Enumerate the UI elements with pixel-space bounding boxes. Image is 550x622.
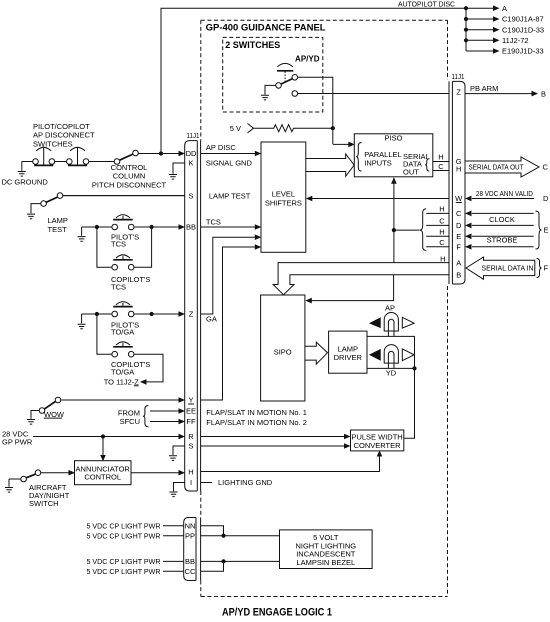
arrow to E190J1D-33 — [493, 48, 500, 54]
wire light pwr CC — [163, 570, 184, 572]
svg-text:AP/YD: AP/YD — [295, 54, 320, 63]
svg-text:OUT: OUT — [403, 167, 419, 176]
wire strobe line 2 — [472, 246, 534, 248]
svg-text:SIGNAL GND: SIGNAL GND — [206, 158, 253, 167]
arrow into pin E — [465, 234, 472, 240]
arrow into pin F — [465, 244, 472, 250]
svg-text:LAMPSIN BEZEL: LAMPSIN BEZEL — [296, 558, 355, 567]
switch copilot's TCS — [112, 264, 118, 270]
arrow into pin Y — [179, 397, 186, 403]
svg-text:B: B — [541, 89, 546, 98]
svg-text:PILOT/COPILOT: PILOT/COPILOT — [33, 122, 90, 131]
svg-text:LAMP TEST: LAMP TEST — [209, 191, 251, 200]
svg-text:AP DISC: AP DISC — [206, 143, 236, 152]
arrow WOW input — [255, 244, 261, 250]
svg-text:DC GROUND: DC GROUND — [2, 178, 49, 187]
svg-text:H: H — [456, 165, 461, 174]
svg-text:C: C — [439, 238, 445, 247]
svg-text:INPUTS: INPUTS — [364, 158, 392, 167]
svg-text:Z: Z — [456, 88, 461, 97]
svg-text:YD: YD — [386, 369, 397, 378]
arrow into pin EE — [179, 408, 186, 414]
wire serial data B to SIPO right — [311, 275, 394, 301]
arrow into pin C — [465, 211, 472, 217]
block annunciator control — [75, 461, 132, 485]
switch copilot's TO/GA — [112, 351, 118, 357]
node TO/GA right — [150, 312, 154, 316]
arrow into annunciator control top — [100, 455, 106, 461]
ground pin K — [169, 163, 185, 179]
node PP junction — [221, 534, 225, 538]
arrow into pin D — [465, 223, 472, 229]
wire clock line 1 — [472, 212, 534, 214]
hollow arrow SIPO to lamp driver — [305, 342, 328, 364]
block SIPO — [261, 295, 305, 401]
wire R to pulse width converter — [201, 436, 346, 438]
brace clock group — [420, 209, 426, 251]
svg-text:5 V: 5 V — [230, 124, 241, 133]
svg-text:C: C — [439, 216, 445, 225]
brace FROM SFCU — [143, 406, 149, 427]
svg-text:C: C — [438, 162, 444, 171]
block LAMP DRIVER — [329, 331, 367, 373]
svg-text:AP DISCONNECT: AP DISCONNECT — [33, 131, 95, 140]
svg-text:C: C — [543, 163, 549, 172]
svg-text:SWITCH: SWITCH — [29, 499, 59, 508]
wire CC loop to BB — [201, 561, 224, 571]
arrow into pin FF — [179, 419, 186, 425]
svg-text:AP: AP — [385, 303, 395, 312]
svg-text:D: D — [456, 221, 462, 230]
arrow into pin R — [179, 434, 186, 440]
ground AP/YD — [261, 85, 276, 100]
node clock junction — [392, 228, 396, 232]
switch pilot's TO/GA — [112, 311, 118, 317]
svg-text:2 SWITCHES: 2 SWITCHES — [225, 40, 280, 50]
arrow into PISO bottom — [391, 177, 397, 184]
svg-text:PITCH DISCONNECT: PITCH DISCONNECT — [92, 181, 167, 190]
svg-text:SFCU: SFCU — [120, 417, 140, 426]
svg-text:K: K — [188, 159, 193, 168]
wire serial data B bent arrow to SIPO — [284, 275, 450, 295]
svg-text:NN: NN — [185, 522, 196, 531]
svg-text:EE: EE — [186, 407, 196, 416]
svg-text:TCS: TCS — [111, 282, 126, 291]
switch LAMP TEST — [63, 195, 185, 197]
svg-text:PISO: PISO — [385, 134, 403, 143]
wire 28 VDC ANN VALID external — [472, 198, 534, 200]
wire strobe line 1 — [472, 235, 534, 237]
switch AP/YD blade — [281, 79, 293, 85]
wire DC ground to switches — [22, 161, 114, 163]
hollow arrow SERIAL DATA IN — [466, 257, 535, 279]
node AP disc junction — [159, 151, 163, 155]
svg-text:CLOCK: CLOCK — [489, 215, 515, 224]
arrow into pin BB — [179, 224, 186, 230]
arrow to A — [493, 5, 500, 11]
arrow PWC input 1 — [344, 434, 351, 440]
connector 11J1 left — [185, 141, 198, 491]
wire PISO C out — [433, 170, 449, 172]
hollow arrow SERIAL DATA OUT — [465, 157, 539, 177]
svg-text:E190J1D-33: E190J1D-33 — [502, 47, 544, 56]
svg-text:5 VDC CP LIGHT PWR: 5 VDC CP LIGHT PWR — [87, 531, 162, 540]
wire copilot TCS branch — [97, 227, 152, 267]
svg-text:H: H — [439, 204, 444, 213]
arrow into PISO left — [348, 142, 355, 148]
svg-text:S: S — [188, 442, 193, 451]
node TCS right — [150, 225, 154, 229]
svg-text:BB: BB — [185, 557, 195, 566]
wire PB ARM — [465, 93, 533, 95]
connector lower — [184, 518, 196, 581]
arrow into pin Z — [179, 311, 186, 317]
svg-text:SERIAL DATA IN: SERIAL DATA IN — [482, 264, 534, 273]
brace parallel inputs — [356, 143, 361, 172]
block PULSE WIDTH CONVERTER — [351, 430, 404, 451]
svg-text:STROBE: STROBE — [487, 236, 518, 245]
node YD rail junction — [412, 366, 416, 370]
svg-text:A: A — [502, 4, 507, 13]
node TCS left — [95, 225, 99, 229]
ground TO/GA — [78, 314, 86, 329]
node branch C190J1D-33 — [464, 28, 468, 32]
svg-text:E: E — [456, 232, 461, 241]
wire S to pulse width converter — [201, 445, 346, 447]
svg-text:BB: BB — [186, 223, 196, 232]
connector 11J1 right — [452, 81, 465, 284]
wire YD lamp wire — [367, 367, 415, 369]
block 5 volt night lighting — [280, 530, 373, 569]
ground TCS — [78, 227, 86, 241]
arrow into PWC bottom — [377, 450, 383, 456]
node TO/GA left — [95, 312, 99, 316]
wire clock line 2 — [472, 224, 534, 226]
block PISO — [354, 134, 433, 177]
svg-text:SIPO: SIPO — [274, 348, 292, 357]
svg-text:CONVERTER: CONVERTER — [354, 441, 402, 450]
svg-text:TCS: TCS — [206, 218, 221, 227]
arrow to C190J1A-87 — [493, 16, 500, 22]
wire AP/YD upper contact to PISO — [298, 77, 350, 144]
arrow to 11J2-72 — [493, 38, 500, 44]
wire Y WOW to level shifters — [201, 247, 257, 400]
wire H to pulse width converter bottom — [201, 456, 380, 472]
wire annunciator control to pin H — [131, 472, 181, 474]
svg-text:A: A — [456, 258, 461, 267]
wire light pwr PP — [163, 535, 184, 537]
wire lighting gnd stub — [201, 482, 212, 484]
wire autopilot disc branch bus — [466, 8, 494, 51]
switch control column pitch disconnect — [120, 154, 133, 160]
arrow to C190J1D-33 — [493, 27, 500, 33]
wire serial data A bent arrow to SIPO — [273, 263, 449, 295]
svg-text:F: F — [456, 243, 461, 252]
switch AP/YD pushbutton cap — [277, 70, 293, 72]
ground pin I — [170, 483, 185, 497]
wire AP lamp rail — [367, 336, 415, 438]
svg-text:SWITCHES: SWITCHES — [33, 139, 73, 148]
svg-text:GP-400 GUIDANCE PANEL: GP-400 GUIDANCE PANEL — [206, 23, 327, 33]
arrow into pin DD — [179, 151, 186, 157]
dashed box GP-400 guidance panel — [201, 20, 448, 596]
svg-text:D: D — [543, 194, 549, 203]
arrow TCS — [255, 224, 261, 230]
svg-text:CONTROL: CONTROL — [84, 473, 121, 482]
wire pitch disconnect to pin DD — [138, 153, 180, 155]
wire 28 VDC GP PWR into R — [33, 436, 181, 438]
brace serial data in — [537, 259, 542, 278]
wire copilot TO/GA branch — [97, 314, 163, 382]
svg-text:C190J1D-33: C190J1D-33 — [502, 25, 544, 34]
svg-text:TO 11J2-Z: TO 11J2-Z — [104, 378, 140, 387]
wire PP to lamps box — [201, 535, 280, 537]
svg-text:5 VDC CP LIGHT PWR: 5 VDC CP LIGHT PWR — [87, 522, 162, 531]
wire FLAP/SLAT no.1 into EE — [150, 410, 181, 412]
wire light pwr NN — [163, 525, 184, 527]
wire clock riser to PISO bottom — [393, 178, 395, 262]
svg-text:SERIAL DATA OUT: SERIAL DATA OUT — [469, 163, 524, 172]
svg-text:B: B — [456, 270, 461, 279]
wire stub pin F — [426, 246, 449, 248]
wire TO/GA bus — [82, 313, 181, 315]
brace serial out — [425, 159, 429, 171]
wire TCS to level shifters — [201, 226, 257, 228]
svg-text:GA: GA — [206, 315, 217, 324]
svg-text:TO/GA: TO/GA — [111, 367, 134, 376]
wire light pwr BB — [163, 560, 184, 562]
svg-text:LAMP: LAMP — [338, 344, 358, 353]
brace clock strobe group — [536, 211, 542, 249]
svg-text:DD: DD — [186, 149, 197, 158]
wire stub pin D — [426, 224, 449, 226]
node GP PWR branch — [101, 434, 105, 438]
lamp YD — [384, 345, 398, 364]
node branch 11J2-72 — [464, 38, 468, 42]
svg-text:Y: Y — [188, 396, 193, 405]
switch pilot AP disconnect — [33, 159, 39, 165]
arrow PWC input 2 — [344, 443, 351, 449]
wire 28 VDC ANN VALID to level shifters — [311, 198, 449, 200]
wire AP DISC to level shifters — [201, 153, 257, 155]
switch aircraft day/night — [5, 479, 13, 492]
svg-text:DRIVER: DRIVER — [334, 353, 363, 362]
svg-text:5 VDC CP LIGHT PWR: 5 VDC CP LIGHT PWR — [87, 567, 162, 576]
svg-text:TCS: TCS — [111, 240, 126, 249]
svg-text:S: S — [188, 192, 193, 201]
hollow arrow level shifters to PISO — [306, 154, 354, 176]
svg-text:28 VDC ANN VALID: 28 VDC ANN VALID — [476, 189, 533, 198]
wire AP/YD lower contact to pin Z right — [298, 93, 449, 95]
resistor pull-up — [254, 125, 333, 132]
arrow into pin H — [179, 470, 186, 476]
switch WOW — [61, 399, 181, 401]
svg-text:COLUMN: COLUMN — [113, 171, 146, 180]
node branch C190J1A-87 — [464, 17, 468, 21]
svg-text:FLAP/SLAT IN MOTION No. 2: FLAP/SLAT IN MOTION No. 2 — [206, 418, 307, 427]
svg-text:H: H — [440, 254, 445, 263]
node branch A — [464, 6, 468, 10]
svg-text:LIGHTING GND: LIGHTING GND — [218, 478, 273, 487]
block LEVEL SHIFTERS — [261, 142, 306, 252]
svg-text:E: E — [544, 226, 549, 235]
svg-text:LAMP: LAMP — [48, 216, 68, 225]
svg-text:PB ARM: PB ARM — [470, 84, 498, 93]
svg-text:11J1: 11J1 — [452, 72, 465, 81]
wire TCS bus — [82, 226, 181, 228]
svg-text:5 VDC CP LIGHT PWR: 5 VDC CP LIGHT PWR — [87, 557, 162, 566]
wire PISO H out — [433, 161, 449, 163]
arrow GA — [255, 234, 261, 240]
svg-text:SHIFTERS: SHIFTERS — [265, 198, 302, 207]
svg-text:LEVEL: LEVEL — [272, 190, 295, 199]
svg-text:C: C — [456, 209, 462, 218]
svg-text:W: W — [455, 194, 463, 203]
arrow into annunciator control left — [69, 470, 76, 476]
arrow AP DISC — [255, 151, 261, 157]
svg-text:AUTOPILOT DISC: AUTOPILOT DISC — [398, 0, 456, 9]
svg-text:GP PWR: GP PWR — [2, 438, 33, 447]
arrow into level shifters right — [306, 196, 313, 202]
wire stub pin E — [426, 235, 449, 237]
node 5V junction — [331, 126, 335, 130]
svg-text:FLAP/SLAT IN MOTION No. 1: FLAP/SLAT IN MOTION No. 1 — [206, 408, 307, 417]
arrow into pin W — [465, 196, 472, 202]
arrow TO 11J2-Z — [140, 379, 147, 385]
wire autopilot disc riser — [161, 8, 466, 153]
wire FLAP/SLAT no.2 into FF — [150, 421, 181, 423]
svg-text:11J1: 11J1 — [187, 131, 200, 140]
wire NN loop to PP — [201, 526, 224, 536]
svg-text:TO/GA: TO/GA — [111, 328, 134, 337]
switch copilot AP disconnect — [67, 159, 73, 165]
svg-text:H: H — [438, 153, 443, 162]
svg-text:I: I — [190, 478, 192, 487]
switch pilot's TCS — [112, 224, 118, 230]
svg-text:WOW: WOW — [44, 410, 65, 419]
ground DC GROUND — [18, 162, 26, 177]
wire clock brace to junction — [394, 229, 420, 231]
svg-text:H: H — [188, 468, 193, 477]
wire GP PWR down to annunciator control — [102, 437, 104, 457]
arrow PB ARM out — [532, 91, 539, 97]
svg-text:R: R — [188, 432, 194, 441]
wire pin S lamp test — [63, 195, 185, 197]
svg-text:11J2-72: 11J2-72 — [502, 36, 529, 45]
wire stub pin C — [426, 212, 449, 214]
svg-text:PP: PP — [185, 531, 195, 540]
svg-text:CC: CC — [185, 567, 196, 576]
svg-text:Z: Z — [189, 310, 194, 319]
svg-text:H: H — [439, 227, 444, 236]
ground pin S lower — [169, 446, 185, 460]
wire BB to lamps box — [201, 560, 280, 562]
node BB junction — [221, 559, 225, 563]
svg-text:F: F — [544, 264, 549, 273]
wire GA to level shifters — [201, 237, 257, 314]
svg-text:FF: FF — [186, 417, 196, 426]
arrow into SIPO right — [305, 298, 312, 304]
dashed box 2 switches — [223, 37, 323, 112]
svg-text:C190J1A-87: C190J1A-87 — [502, 15, 544, 24]
svg-text:TEST: TEST — [48, 225, 68, 234]
svg-text:AP/YD ENGAGE LOGIC 1: AP/YD ENGAGE LOGIC 1 — [222, 607, 332, 619]
